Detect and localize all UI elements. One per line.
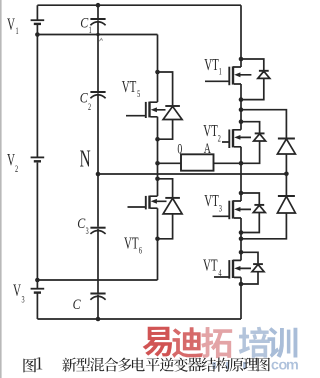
svg-text:2: 2 (15, 163, 18, 174)
svg-text:2: 2 (218, 133, 221, 144)
svg-text:VT: VT (204, 56, 219, 75)
svg-text:C: C (77, 215, 86, 232)
svg-text:3: 3 (219, 203, 222, 214)
svg-text:1: 1 (219, 66, 222, 77)
svg-text:VT: VT (204, 192, 219, 211)
svg-text:V: V (13, 281, 21, 300)
svg-text:1: 1 (89, 24, 92, 35)
svg-text:VT: VT (122, 78, 137, 97)
svg-text:VT: VT (203, 122, 218, 141)
svg-text:0: 0 (177, 141, 182, 158)
svg-text:A: A (204, 140, 212, 157)
svg-text:6: 6 (139, 245, 142, 256)
svg-text:N: N (80, 146, 91, 172)
svg-text:5: 5 (137, 89, 140, 100)
svg-text:V: V (7, 15, 15, 34)
svg-text:C: C (80, 14, 89, 31)
svg-text:2: 2 (88, 101, 91, 112)
svg-text:V: V (7, 151, 15, 170)
svg-text:VT: VT (203, 256, 218, 275)
svg-text:3: 3 (86, 226, 89, 237)
svg-text:C: C (73, 296, 82, 313)
svg-text:VT: VT (124, 234, 139, 253)
svg-text:C: C (80, 89, 89, 106)
svg-text:1: 1 (16, 26, 19, 37)
svg-text:3: 3 (22, 294, 25, 305)
